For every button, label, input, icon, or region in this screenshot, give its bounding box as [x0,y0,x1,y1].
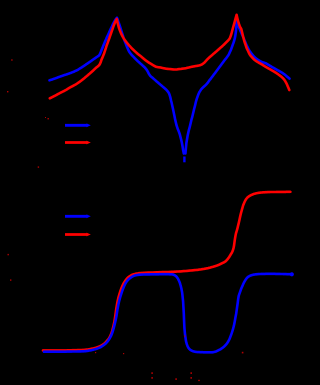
legend sample line red (upper pair) [65,141,88,144]
legend sample line blue (upper pair) [65,124,88,127]
blue phase curve right end dot [290,272,294,276]
curve: red phase [43,192,290,351]
curve: blue phase [44,274,292,353]
stray red antialias specks from original black labels [7,59,243,381]
red phase curve right end tip [287,191,291,193]
blue antiresonance notch tip dash [183,157,185,163]
curve: red amplitude |x2| [50,15,289,99]
legend sample line red (lower pair) [65,233,88,236]
curve: blue amplitude |x1| left part (start to antiresonance notch) [50,18,184,154]
legend sample line blue (lower pair) [65,215,88,218]
curve: blue amplitude |x1| right part (notch to right end) [185,20,289,153]
